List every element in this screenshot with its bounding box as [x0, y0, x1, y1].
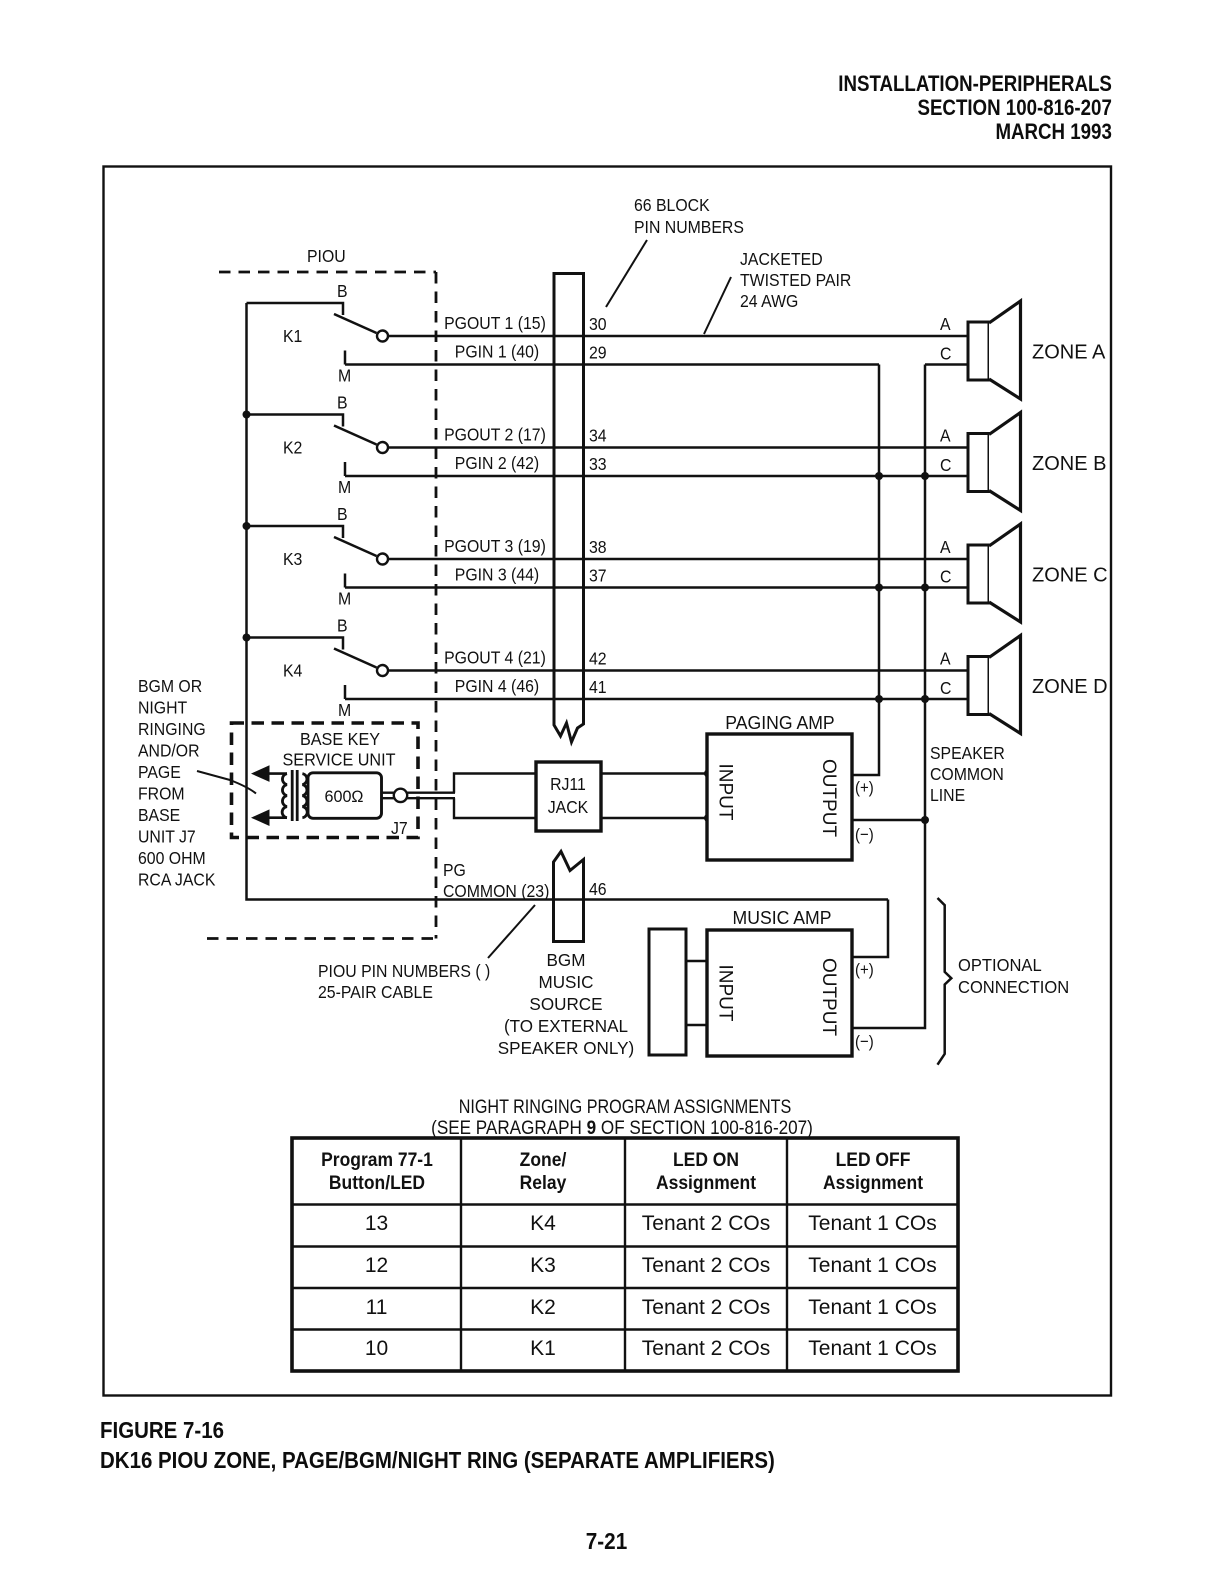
svg-text:ZONE B: ZONE B — [1032, 453, 1106, 475]
svg-text:B: B — [337, 616, 348, 636]
node junction zone D C-terminal — [921, 695, 929, 703]
svg-text:PAGING AMP: PAGING AMP — [725, 713, 834, 733]
svg-text:BGM: BGM — [547, 950, 586, 971]
wire PGOUT 2 — [388, 446, 968, 448]
svg-text:PG: PG — [443, 860, 466, 880]
svg-text:37: 37 — [589, 566, 607, 586]
svg-text:K2: K2 — [283, 438, 302, 458]
speaker zone B — [968, 413, 1021, 511]
wire zone A C-terminal stub — [925, 363, 968, 365]
svg-text:29: 29 — [589, 343, 607, 363]
svg-text:PGOUT 2 (17): PGOUT 2 (17) — [444, 425, 546, 445]
label OPTIONAL CONNECTION — [958, 954, 1069, 997]
svg-text:(TO EXTERNAL: (TO EXTERNAL — [504, 1016, 628, 1037]
svg-text:41: 41 — [589, 677, 607, 697]
node paging amp input top — [704, 770, 712, 778]
wire PG COMMON corner to music amp (+) — [852, 900, 888, 958]
table row 11 — [267, 1296, 487, 1320]
svg-text:K1: K1 — [283, 326, 302, 346]
svg-text:AND/OR: AND/OR — [138, 741, 200, 761]
svg-text:ZONE C: ZONE C — [1032, 565, 1108, 587]
svg-text:SERVICE UNIT: SERVICE UNIT — [282, 750, 396, 770]
svg-text:BGM OR: BGM OR — [138, 676, 202, 696]
relay K2 — [247, 415, 389, 477]
svg-text:SPEAKER: SPEAKER — [930, 743, 1005, 763]
svg-text:(+): (+) — [855, 779, 874, 797]
node junction K2 feed — [243, 411, 251, 419]
svg-text:K3: K3 — [283, 549, 302, 569]
svg-text:33: 33 — [589, 454, 607, 474]
svg-text:BASE: BASE — [138, 805, 180, 825]
svg-text:PGIN 4 (46): PGIN 4 (46) — [455, 676, 539, 696]
BGM music source connector block — [649, 929, 686, 1055]
svg-text:42: 42 — [589, 649, 607, 669]
node junction K3 feed — [243, 522, 251, 530]
svg-text:ZONE D: ZONE D — [1032, 676, 1108, 698]
svg-text:B: B — [337, 393, 348, 413]
svg-text:C: C — [940, 344, 951, 364]
relay K3 — [247, 526, 389, 588]
svg-text:COMMON (23): COMMON (23) — [443, 881, 549, 901]
label JACKETED TWISTED PAIR 24 AWG — [740, 249, 851, 311]
svg-text:M: M — [338, 589, 351, 609]
outer figure border — [104, 167, 1112, 1396]
speaker zone A — [968, 301, 1021, 399]
svg-text:C: C — [940, 678, 951, 698]
svg-text:K4: K4 — [283, 661, 302, 681]
base key service unit dashed box — [232, 723, 419, 838]
wire J7 to RJ11 cable pair — [407, 774, 536, 819]
svg-text:66 BLOCK: 66 BLOCK — [634, 195, 710, 215]
svg-text:24 AWG: 24 AWG — [740, 291, 798, 311]
wire RJ11 to paging amp input (pair) — [601, 774, 708, 819]
leader line 66 block pin numbers — [606, 240, 647, 307]
66 block lower segment — [554, 852, 584, 942]
svg-text:INPUT: INPUT — [715, 764, 736, 821]
wire BGM source to music amp input (pair) — [686, 961, 707, 1025]
wire PGOUT 3 — [388, 558, 968, 560]
svg-text:CONNECTION: CONNECTION — [958, 976, 1069, 997]
node junction zone C C-terminal — [921, 584, 929, 592]
svg-text:OUTPUT: OUTPUT — [818, 958, 839, 1037]
svg-text:34: 34 — [589, 426, 607, 446]
music amplifier U2 — [707, 930, 852, 1056]
table title — [342, 1097, 908, 1119]
table row 10 — [267, 1337, 487, 1361]
svg-text:38: 38 — [589, 537, 607, 557]
optional connection brace — [938, 898, 952, 1065]
figure caption — [100, 1417, 224, 1444]
svg-text:PGIN 1 (40): PGIN 1 (40) — [455, 342, 539, 362]
svg-text:COMMON: COMMON — [930, 764, 1004, 784]
svg-text:600Ω: 600Ω — [324, 787, 363, 806]
svg-text:M: M — [338, 366, 351, 386]
wire PGOUT 1 — [388, 335, 968, 337]
svg-text:A: A — [940, 426, 951, 446]
speaker zone C — [968, 524, 1021, 622]
label BGM OR NIGHT RINGING AND/OR PAGE FROM BASE UNIT J7 600 OHM RCA JACK — [138, 676, 216, 890]
svg-text:FROM: FROM — [138, 784, 185, 804]
wire PGOUT 4 — [388, 669, 968, 671]
svg-text:25-PAIR CABLE: 25-PAIR CABLE — [318, 982, 433, 1002]
node paging amp input bottom — [704, 814, 712, 822]
leader line from PAGE text to transformer — [197, 771, 256, 794]
svg-text:INPUT: INPUT — [715, 965, 736, 1022]
wire PGIN 2 — [345, 475, 968, 477]
wire PGIN 4 — [345, 698, 968, 700]
svg-text:OPTIONAL: OPTIONAL — [958, 954, 1042, 975]
svg-text:PGOUT 3 (19): PGOUT 3 (19) — [444, 536, 546, 556]
svg-text:PIN NUMBERS: PIN NUMBERS — [634, 217, 744, 237]
svg-text:LINE: LINE — [930, 785, 965, 805]
wire paging amp (-) output to speaker common — [852, 819, 925, 821]
svg-text:PGOUT 1 (15): PGOUT 1 (15) — [444, 313, 546, 333]
svg-text:M: M — [338, 700, 351, 720]
node junction PGIN3 / return bus — [875, 584, 883, 592]
svg-text:J7: J7 — [391, 818, 408, 838]
svg-text:MUSIC AMP: MUSIC AMP — [733, 908, 832, 928]
node junction zone B C-terminal — [921, 472, 929, 480]
label BASE KEY SERVICE UNIT — [282, 729, 396, 769]
svg-text:RINGING: RINGING — [138, 719, 206, 739]
RJ11 jack box — [536, 762, 601, 831]
node junction K4 feed — [243, 634, 251, 642]
svg-text:ZONE A: ZONE A — [1032, 342, 1106, 364]
wire speaker common line — [852, 365, 925, 1029]
svg-text:C: C — [940, 567, 951, 587]
leader line PIOU pin numbers — [488, 905, 535, 958]
label BGM MUSIC SOURCE (TO EXTERNAL SPEAKER ONLY) — [498, 950, 634, 1059]
svg-text:46: 46 — [589, 879, 607, 899]
svg-text:TWISTED PAIR: TWISTED PAIR — [740, 270, 851, 290]
resistor 600 ohm box — [308, 773, 382, 819]
svg-text:PGIN 2 (42): PGIN 2 (42) — [455, 453, 539, 473]
svg-text:PIOU PIN NUMBERS ( ): PIOU PIN NUMBERS ( ) — [318, 961, 490, 981]
leader line jacketed twisted pair — [704, 277, 731, 334]
svg-text:A: A — [940, 649, 951, 669]
wire PGIN 3 — [345, 586, 968, 588]
node junction PGIN2 / return bus — [875, 472, 883, 480]
svg-text:OUTPUT: OUTPUT — [818, 759, 839, 838]
svg-text:(−): (−) — [855, 826, 874, 844]
svg-text:BASE KEY: BASE KEY — [300, 729, 381, 749]
svg-text:PIOU: PIOU — [307, 246, 346, 266]
svg-text:600 OHM: 600 OHM — [138, 848, 206, 868]
node junction paging amp (-) / speaker common — [921, 816, 929, 824]
label 66 BLOCK PIN NUMBERS — [634, 195, 744, 237]
svg-text:(−): (−) — [855, 1033, 874, 1051]
label SPEAKER COMMON LINE — [930, 743, 1005, 805]
PIOU dashed enclosure — [207, 272, 436, 939]
66 block upper segment — [554, 274, 584, 743]
wire left bus from K1 down to PG COMMON corner — [247, 303, 889, 900]
svg-text:A: A — [940, 314, 951, 334]
svg-text:A: A — [940, 537, 951, 557]
table row 12 — [267, 1254, 487, 1278]
svg-text:RCA JACK: RCA JACK — [138, 870, 216, 890]
svg-text:RJ11: RJ11 — [550, 774, 586, 794]
svg-text:C: C — [940, 455, 951, 475]
svg-text:JACK: JACK — [548, 797, 589, 817]
page header — [838, 72, 1112, 144]
paging amplifier U1 — [707, 734, 852, 860]
svg-text:(+): (+) — [855, 961, 874, 979]
svg-text:30: 30 — [589, 314, 607, 334]
svg-text:MUSIC: MUSIC — [538, 972, 593, 993]
page number — [61, 1528, 1153, 1555]
label PG COMMON (23) — [443, 860, 549, 901]
label RJ11 JACK — [548, 774, 589, 817]
wire 600 ohm box to J7 jack (pair) — [381, 793, 394, 799]
label PIOU PIN NUMBERS ( ) 25-PAIR CABLE — [318, 961, 490, 1002]
relay K4 — [247, 638, 389, 700]
relay K1 — [247, 303, 389, 365]
svg-text:B: B — [337, 281, 348, 301]
svg-text:PGIN 3 (44): PGIN 3 (44) — [455, 565, 539, 585]
speaker zone D — [968, 636, 1021, 734]
connector J7 RCA jack — [394, 789, 407, 802]
node junction PGIN4 / return bus — [875, 695, 883, 703]
svg-text:PGOUT 4 (21): PGOUT 4 (21) — [444, 648, 546, 668]
svg-text:NIGHT: NIGHT — [138, 698, 187, 718]
wire PGIN return bus (vertical to paging amp +) — [852, 365, 879, 776]
night ringing program assignments table — [292, 1138, 958, 1371]
wire PGIN 1 — [345, 363, 879, 365]
svg-text:JACKETED: JACKETED — [740, 249, 823, 269]
svg-text:B: B — [337, 504, 348, 524]
table header row — [275, 1149, 477, 1195]
table row 13 — [267, 1212, 487, 1236]
svg-text:SPEAKER ONLY): SPEAKER ONLY) — [498, 1038, 634, 1059]
svg-text:UNIT J7: UNIT J7 — [138, 827, 196, 847]
svg-text:M: M — [338, 477, 351, 497]
svg-text:SOURCE: SOURCE — [529, 994, 602, 1015]
svg-text:PAGE: PAGE — [138, 762, 181, 782]
transformer T1 (BGM/page coupling) — [251, 765, 307, 826]
